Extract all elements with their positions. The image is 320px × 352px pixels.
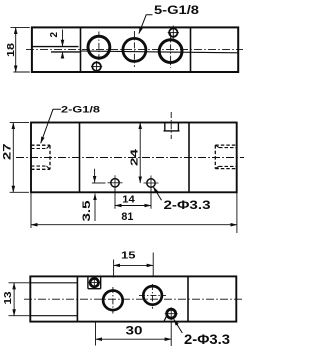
top view horizontal centerline <box>26 48 243 50</box>
svg-text:2: 2 <box>49 32 60 38</box>
notch vertical centerline <box>170 112 172 139</box>
left port hidden outline top <box>31 144 50 146</box>
svg-text:2-Φ3.3: 2-Φ3.3 <box>164 198 211 212</box>
bottom view horizontal centerline <box>24 298 242 300</box>
right port hidden end <box>214 145 216 169</box>
top notch right wall <box>177 123 179 131</box>
mounting hole A <box>111 179 119 187</box>
slot upper line <box>33 46 79 48</box>
top view body outline <box>32 27 238 72</box>
left port inner top <box>31 148 47 150</box>
right port hidden outline top <box>215 144 236 146</box>
port circle P2 <box>123 38 146 61</box>
face seam line <box>81 51 239 53</box>
top view right divider wire <box>190 27 192 72</box>
right port hidden outline bottom <box>215 168 236 170</box>
dimension 30 right extension <box>170 323 172 347</box>
dimension 15 left extension <box>113 260 115 278</box>
dimension 27 line <box>12 123 14 193</box>
svg-text:5-G1/8: 5-G1/8 <box>154 3 199 17</box>
hole B extension down <box>150 189 152 209</box>
dimension 2 upper arrow <box>62 30 64 47</box>
svg-text:24: 24 <box>128 149 140 166</box>
svg-text:81: 81 <box>121 211 133 223</box>
top notch bottom <box>164 130 180 132</box>
dimension 27 extension top <box>10 122 29 124</box>
screw ring SB <box>167 309 176 318</box>
screw notch bottom <box>88 288 101 290</box>
left port inner bottom <box>31 165 47 167</box>
top view left divider wire <box>80 27 82 72</box>
dimension 81 right extension <box>236 192 238 233</box>
svg-text:13: 13 <box>2 291 14 304</box>
right divider wire <box>187 276 189 321</box>
svg-text:30: 30 <box>126 326 143 338</box>
dimension 13 line <box>13 283 15 316</box>
dimension 27 extension bottom <box>10 191 29 193</box>
L1 vertical center mark <box>112 287 114 314</box>
port circle P3 <box>159 40 182 63</box>
L2 horizontal center mark <box>139 294 166 296</box>
screw hole S2 <box>169 28 177 36</box>
left port hidden end <box>49 145 51 169</box>
middle view left divider wire <box>79 123 81 193</box>
right port inner top <box>219 147 237 149</box>
dimension 2 lower arrow <box>62 52 64 59</box>
dimension 18 extension top <box>11 26 30 28</box>
top notch left wall <box>164 123 166 131</box>
dimension 18 extension bottom <box>14 71 30 73</box>
middle view body outline <box>31 123 237 193</box>
dimension 30 left extension <box>95 322 97 346</box>
dimension 3.5 upper arrow <box>94 169 96 183</box>
left section inner top line <box>30 282 77 284</box>
dimension 15 line <box>114 264 154 266</box>
dimension 3.5 lower arrow <box>94 194 96 221</box>
exhaust circle L2 <box>143 286 162 305</box>
screw hole S1 <box>92 62 101 71</box>
label 2-phi3.3 middle leader <box>153 187 161 201</box>
svg-text:27: 27 <box>2 144 14 161</box>
screw ring SA <box>90 278 98 286</box>
middle view right divider wire <box>188 123 190 193</box>
port circle P1 <box>88 36 110 58</box>
dimension 15 right extension <box>152 253 154 278</box>
dimension 81 line <box>31 224 237 226</box>
left port chamfer top <box>47 145 51 148</box>
exhaust circle L1 <box>103 291 123 311</box>
dimension 14 line <box>115 205 151 207</box>
dimension 13 extension top <box>9 282 30 284</box>
left section inner bottom line <box>30 315 77 317</box>
bottom view body outline <box>30 276 236 321</box>
P2 vertical center mark <box>133 31 135 67</box>
left port chamfer bottom <box>47 166 51 169</box>
svg-text:2-Φ3.3: 2-Φ3.3 <box>184 332 231 347</box>
screw notch left wall <box>87 276 89 288</box>
dimension 81 left extension <box>30 192 32 228</box>
dimension 3.5 extension <box>92 182 106 184</box>
screw notch right wall <box>100 276 102 288</box>
L2 vertical center mark <box>151 284 153 309</box>
right port chamfer bottom <box>215 166 219 168</box>
screw SB chamfer <box>164 316 167 321</box>
svg-text:14: 14 <box>122 194 135 206</box>
left port hidden outline bottom <box>31 168 50 170</box>
svg-text:15: 15 <box>121 250 136 262</box>
label 5-G1/8 leader <box>139 15 153 34</box>
slot lower line <box>51 51 81 53</box>
mounting hole B <box>147 179 155 187</box>
label 2-G1/8 leader <box>41 109 61 143</box>
middle view horizontal centerline <box>16 157 244 159</box>
P3 vertical center mark <box>170 33 172 68</box>
dimension 30 line <box>96 338 172 340</box>
svg-text:2-G1/8: 2-G1/8 <box>61 105 100 115</box>
step divider wire <box>76 276 78 321</box>
dimension 13 extension bottom <box>9 315 30 317</box>
right port inner bottom <box>219 165 237 167</box>
dimension 24 line <box>139 123 141 184</box>
right port chamfer top <box>215 145 219 148</box>
dimension 18 line <box>15 27 17 72</box>
svg-text:18: 18 <box>5 43 17 57</box>
label 2-phi3.3 bottom leader <box>174 319 183 333</box>
svg-text:3.5: 3.5 <box>81 201 93 222</box>
hole A extension down <box>114 189 116 209</box>
P1 vertical center mark <box>98 32 100 64</box>
